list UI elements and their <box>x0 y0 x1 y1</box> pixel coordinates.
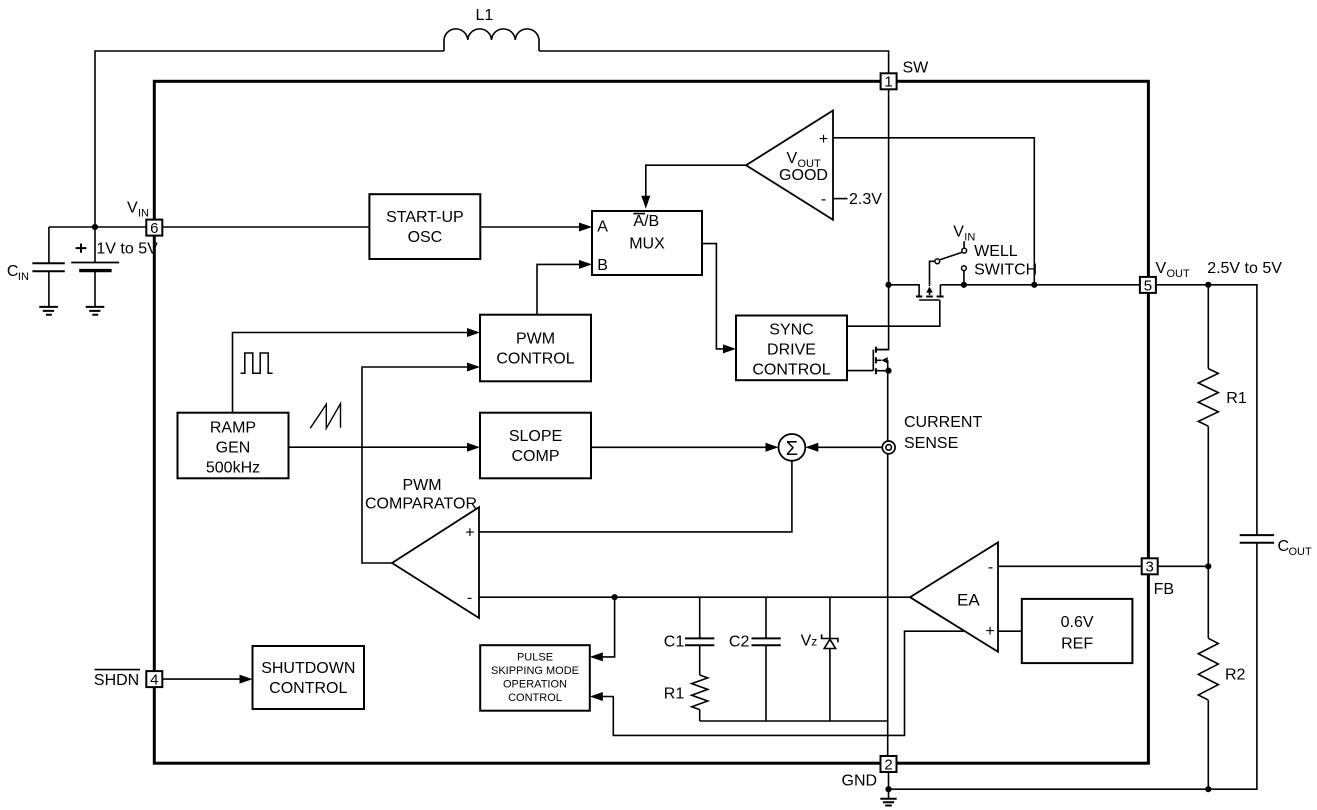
wire C1 top stub <box>699 597 701 638</box>
svg-text:-: - <box>821 191 826 208</box>
well switch pole contact <box>935 259 940 264</box>
svg-text:V: V <box>1156 260 1167 277</box>
wire R1 bottom stub <box>699 710 701 721</box>
wire C2 bottom stub <box>765 645 767 721</box>
svg-text:GEN: GEN <box>216 440 251 457</box>
transistor Q1 gate plate <box>919 299 940 301</box>
wire pin6 to MUX input A <box>162 226 580 228</box>
op-amp EA error amplifier <box>910 542 998 651</box>
ground under CIN <box>39 307 58 315</box>
junction SW/PMOS source <box>885 282 891 288</box>
svg-text:OPERATION: OPERATION <box>503 679 567 691</box>
svg-text:V: V <box>787 150 798 167</box>
svg-text:500kHz: 500kHz <box>206 460 260 477</box>
svg-text:V: V <box>953 224 964 241</box>
svg-text:DRIVE: DRIVE <box>767 341 816 358</box>
svg-text:SHUTDOWN: SHUTDOWN <box>261 660 355 677</box>
svg-text:GOOD: GOOD <box>779 167 828 184</box>
block SYNC DRIVE CONTROL <box>736 316 847 381</box>
square wave symbol <box>241 353 273 373</box>
svg-text:SKIPPING MODE: SKIPPING MODE <box>491 665 579 677</box>
wire current sense node to summer <box>818 446 882 448</box>
svg-text:OUT: OUT <box>1289 546 1313 558</box>
block PWM CONTROL <box>480 315 591 382</box>
wire C2 top stub <box>765 597 767 638</box>
svg-text:A: A <box>597 218 608 235</box>
wire CIN bottom stub <box>48 271 50 307</box>
svg-text:PWM: PWM <box>516 330 555 347</box>
wire ramp-gen top tap to PWM CONTROL input 1 <box>233 333 469 413</box>
block SHUTDOWN CONTROL <box>253 646 365 709</box>
svg-text:R1: R1 <box>664 685 685 702</box>
svg-text:SYNC: SYNC <box>769 321 813 338</box>
battery 1V to 5V <box>71 262 119 264</box>
wire Vz bottom stub <box>829 649 831 722</box>
svg-text:SW: SW <box>903 59 930 76</box>
svg-text:4: 4 <box>150 672 158 689</box>
wire summer output to pwm-comparator plus input <box>479 461 792 532</box>
svg-text:CONTROL: CONTROL <box>496 350 574 367</box>
op-amp PWM comparator <box>392 507 479 618</box>
resistor R2 output divider <box>1198 638 1218 700</box>
junction Q2 source <box>885 368 891 374</box>
ground symbol at GND pin <box>880 799 896 806</box>
transistor Q1 right terminal and drain wire to VOUT pin <box>940 285 1140 296</box>
pin 6 VIN <box>146 220 162 236</box>
wire EA output to pwm-comparator minus input <box>479 596 910 598</box>
well switch bottom stub to VOUT rail <box>963 271 965 285</box>
svg-text:A/B: A/B <box>633 213 659 230</box>
wire R1 top stub <box>1207 285 1209 369</box>
svg-text:Σ: Σ <box>786 438 798 460</box>
wire vout-good output to MUX select <box>646 165 746 196</box>
wire RAMP GEN to SLOPE COMP <box>289 446 469 448</box>
svg-text:PWM: PWM <box>402 477 441 494</box>
resistor R1 output divider <box>1198 369 1218 427</box>
overline over A of A/B <box>633 213 645 215</box>
wire EA minus input to FB pin <box>998 565 1142 567</box>
svg-text:IN: IN <box>964 232 975 244</box>
wire SYNC DRIVE lower output to NMOS gate <box>847 370 873 372</box>
wire SLOPE COMP output to summer <box>591 446 766 448</box>
block A/B MUX U-mux <box>592 211 702 275</box>
wire R2 bottom stub <box>1207 700 1209 789</box>
transistor Q2 drain stub <box>876 349 889 351</box>
svg-text:6: 6 <box>150 220 158 237</box>
wire battery top stub <box>94 227 96 263</box>
svg-text:2: 2 <box>884 756 892 773</box>
transistor Q2 NMOS switch: gate plate <box>872 350 874 371</box>
junction well switch / VOUT rail <box>961 282 967 288</box>
junction battery/VIN node <box>92 224 98 230</box>
svg-text:3: 3 <box>1146 559 1154 576</box>
svg-text:5: 5 <box>1144 277 1152 294</box>
sawtooth ramp symbol <box>310 404 340 429</box>
wire L1 to SW pin <box>539 51 889 73</box>
svg-text:0.6V: 0.6V <box>1061 614 1094 631</box>
svg-text:SENSE: SENSE <box>904 435 958 452</box>
svg-text:1: 1 <box>884 74 892 91</box>
wire C1 to R1 <box>699 645 701 675</box>
zener diode Vz cathode bar <box>822 634 838 642</box>
transistor Q1 PMOS well switch: source wire and left terminal <box>889 285 920 296</box>
well switch: VIN stub <box>963 241 965 248</box>
svg-text:CONTROL: CONTROL <box>508 692 562 704</box>
svg-text:IN: IN <box>138 208 149 220</box>
svg-text:-: - <box>467 590 472 607</box>
capacitor CIN <box>32 263 64 271</box>
inductor L1 <box>444 29 539 51</box>
transistor Q1 bulk arrow from well switch <box>930 261 935 286</box>
svg-text:V: V <box>801 633 812 650</box>
junction R2 / ground bus <box>1205 786 1211 792</box>
wire EA plus net to PULSE SKIPPING input 2 <box>602 631 964 735</box>
svg-text:CONTROL: CONTROL <box>752 361 830 378</box>
svg-text:MUX: MUX <box>629 235 665 252</box>
svg-text:C: C <box>1278 538 1290 555</box>
block PULSE SKIPPING MODE OPERATION CONTROL <box>480 645 590 711</box>
svg-text:-: - <box>988 559 993 576</box>
capacitor C1 <box>685 638 714 645</box>
wire junction down to PULSE SKIPPING input 1 <box>602 597 615 657</box>
svg-text:z: z <box>811 635 817 649</box>
wire CIN top stub <box>48 227 50 263</box>
summing node sigma <box>779 434 806 461</box>
svg-text:REF: REF <box>1061 635 1093 652</box>
svg-text:CURRENT: CURRENT <box>904 414 982 431</box>
battery plus sign <box>76 244 87 253</box>
transistor Q2 channel segments <box>875 347 877 375</box>
wire Vz top stub <box>829 597 831 638</box>
svg-text:RAMP: RAMP <box>210 420 256 437</box>
svg-text:COMPARATOR: COMPARATOR <box>365 496 477 513</box>
svg-text:C: C <box>7 263 19 280</box>
svg-text:PULSE: PULSE <box>517 652 553 664</box>
capacitor C2 <box>752 638 781 645</box>
wire VOUT pin to divider and COUT <box>1156 285 1257 535</box>
svg-text:R1: R1 <box>1226 390 1247 407</box>
svg-text:START-UP: START-UP <box>386 209 464 226</box>
wire ground bus to output divider and COUT <box>889 543 1257 789</box>
svg-text:OUT: OUT <box>1167 268 1191 280</box>
junction ground node <box>885 786 891 792</box>
block 0.6V REF <box>1022 599 1133 663</box>
zener diode Vz anode triangle <box>824 639 835 648</box>
svg-text:SHDN: SHDN <box>94 672 139 689</box>
node CURRENT SENSE <box>882 441 895 454</box>
well switch contact top <box>962 248 967 253</box>
wire compensation bottom bus <box>700 720 889 722</box>
wire pin4 to SHUTDOWN CONTROL <box>162 678 240 680</box>
wire pwm-comparator output to PWM CONTROL input 2 <box>362 367 468 563</box>
svg-text:FB: FB <box>1154 581 1174 598</box>
svg-text:WELL: WELL <box>974 243 1018 260</box>
svg-text:C1: C1 <box>664 633 685 650</box>
wire MUX output to SYNC DRIVE CONTROL <box>702 244 724 349</box>
wire PWM CONTROL to MUX input B <box>537 264 580 314</box>
transistor Q1 channel segments <box>916 296 944 298</box>
svg-text:+: + <box>465 525 474 542</box>
wire NMOS source/bulk vertical down through current sense to GND pin <box>887 360 889 756</box>
svg-text:2.5V to 5V: 2.5V to 5V <box>1207 260 1282 277</box>
capacitor COUT <box>1240 535 1274 543</box>
junction VOUT / R1 divider <box>1205 282 1211 288</box>
svg-text:SWITCH: SWITCH <box>974 262 1037 279</box>
pin 3 FB <box>1142 558 1158 574</box>
svg-text:GND: GND <box>842 772 878 789</box>
wire FB pin to divider tap <box>1158 565 1209 567</box>
wire VIN top from battery node up and across to L1 <box>95 51 444 227</box>
transistor Q2 source stub <box>876 370 889 372</box>
op-amp VOUT GOOD comparator <box>746 111 833 220</box>
svg-text:V: V <box>127 200 138 217</box>
pin 5 VOUT <box>1140 277 1156 293</box>
svg-text:+: + <box>819 131 828 148</box>
pin 4 SHDN <box>146 671 162 687</box>
svg-text:L1: L1 <box>476 7 494 24</box>
wire battery bottom stub <box>94 271 96 307</box>
transistor Q2 bulk arrow <box>876 359 881 361</box>
junction vout-good sense / VOUT rail <box>1031 282 1037 288</box>
pin 1 SW <box>881 73 897 89</box>
svg-text:EA: EA <box>957 591 980 610</box>
svg-text:COMP: COMP <box>512 448 560 465</box>
svg-text:CONTROL: CONTROL <box>269 680 347 697</box>
svg-text:B: B <box>597 257 608 274</box>
svg-text:1V to 5V: 1V to 5V <box>96 240 158 257</box>
well switch contact bottom <box>962 266 967 271</box>
svg-text:OSC: OSC <box>408 229 443 246</box>
wire vout-good minus input stub <box>833 198 848 200</box>
svg-text:2.3V: 2.3V <box>849 191 882 208</box>
well switch blade <box>940 252 962 260</box>
svg-text:+: + <box>985 623 994 640</box>
IC boundary box <box>154 81 1148 763</box>
junction FB tap <box>1205 563 1211 569</box>
resistor R1 compensation <box>692 675 708 710</box>
junction EA output / pulse-skip sense <box>612 594 618 600</box>
wire SYNC DRIVE upper output to PMOS gate <box>847 300 940 326</box>
wire SW node vertical (pin1 down to NMOS drain) <box>876 89 889 349</box>
block RAMP GEN 500kHz <box>178 413 289 479</box>
wire VIN node to pin 6 <box>49 226 146 228</box>
block SLOPE COMP <box>480 413 591 479</box>
svg-text:C2: C2 <box>729 633 750 650</box>
wire vout-good plus input from well-switch node <box>833 138 1034 285</box>
ground under battery <box>86 307 105 315</box>
block START-UP OSC <box>369 194 480 259</box>
wire R1 to R2 through FB tap <box>1207 426 1209 638</box>
pin 2 GND <box>881 756 897 772</box>
svg-text:IN: IN <box>18 271 29 283</box>
wire EA plus input to 0.6V REF <box>998 630 1022 632</box>
svg-text:R2: R2 <box>1225 667 1246 684</box>
svg-text:SLOPE: SLOPE <box>509 428 562 445</box>
wire GND pin to ground <box>888 772 890 799</box>
